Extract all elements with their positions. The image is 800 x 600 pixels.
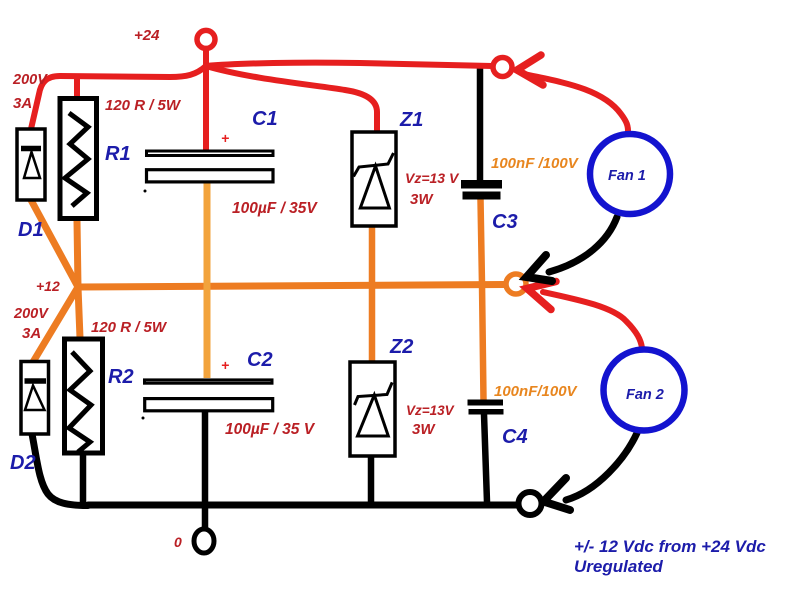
svg-text:120 R / 5W: 120 R / 5W [91, 319, 168, 336]
svg-text:Fan 1: Fan 1 [608, 168, 646, 184]
svg-text:C2: C2 [247, 349, 273, 371]
svg-text:C3: C3 [492, 211, 518, 233]
svg-text:R2: R2 [108, 366, 134, 388]
svg-text:Vz=13V: Vz=13V [406, 403, 455, 418]
svg-text:120 R / 5W: 120 R / 5W [105, 97, 182, 114]
svg-text:Z1: Z1 [399, 109, 423, 131]
svg-text:C4: C4 [502, 426, 528, 448]
svg-text:C1: C1 [252, 108, 278, 130]
svg-text:3W: 3W [410, 191, 434, 208]
svg-text:3A: 3A [22, 325, 41, 342]
svg-text:200V: 200V [13, 306, 49, 322]
svg-text:+: + [221, 357, 229, 373]
svg-text:100nF /100V: 100nF /100V [491, 155, 580, 172]
svg-text:100µF / 35V: 100µF / 35V [232, 200, 318, 217]
svg-text:100µF / 35 V: 100µF / 35 V [225, 421, 316, 438]
svg-text:3W: 3W [412, 421, 436, 438]
svg-text:+12: +12 [36, 278, 60, 294]
svg-text:200V: 200V [12, 72, 48, 88]
svg-text:D1: D1 [18, 219, 44, 241]
svg-text:100nF/100V: 100nF/100V [494, 383, 579, 400]
svg-text:Vz=13 V: Vz=13 V [405, 170, 460, 186]
svg-text:0: 0 [174, 534, 182, 550]
svg-text:+: + [221, 130, 229, 146]
svg-text:R1: R1 [105, 143, 131, 165]
svg-text:+/- 12 Vdc from +24 Vdc: +/- 12 Vdc from +24 Vdc [574, 537, 766, 556]
svg-text:Uregulated: Uregulated [574, 557, 663, 576]
svg-text:+24: +24 [134, 27, 160, 44]
svg-text:Z2: Z2 [389, 336, 413, 358]
svg-text:Fan 2: Fan 2 [626, 387, 664, 403]
svg-text:D2: D2 [10, 452, 36, 474]
svg-text:3A: 3A [13, 95, 32, 112]
